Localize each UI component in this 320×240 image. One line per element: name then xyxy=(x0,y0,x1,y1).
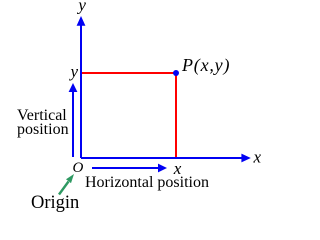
vertical position arrow xyxy=(69,83,78,157)
horizontal position arrow xyxy=(92,164,167,173)
svg-text:Origin: Origin xyxy=(31,193,79,213)
svg-text:position: position xyxy=(17,121,69,138)
svg-text:y: y xyxy=(69,62,79,81)
svg-text:O: O xyxy=(72,160,83,176)
y-axis xyxy=(77,16,86,158)
svg-text:Horizontal position: Horizontal position xyxy=(85,174,209,191)
vertical position text xyxy=(17,107,69,138)
svg-text:x: x xyxy=(253,148,262,167)
red horizontal line from y-axis to P xyxy=(82,72,176,74)
origin pointer arrow xyxy=(59,174,74,195)
point P xyxy=(173,70,179,76)
svg-text:y: y xyxy=(76,0,86,15)
red vertical line from P to x-axis xyxy=(175,73,177,157)
x-axis xyxy=(81,154,251,163)
svg-text:P(x,y): P(x,y) xyxy=(181,55,230,76)
